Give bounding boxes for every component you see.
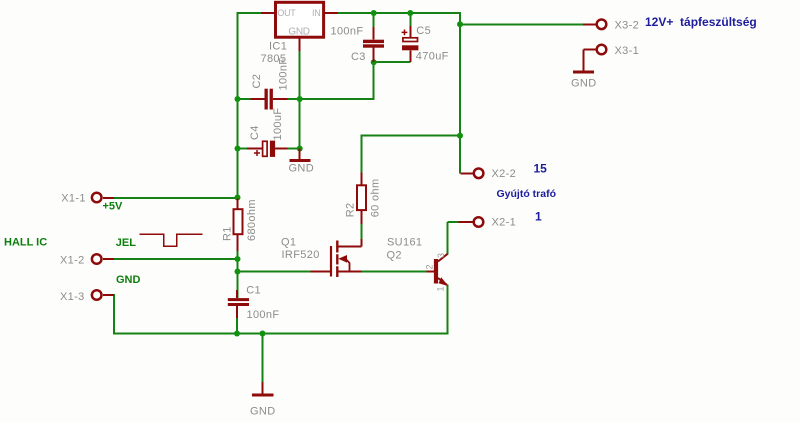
svg-text:OUT: OUT — [277, 8, 296, 18]
svg-text:15: 15 — [534, 162, 548, 176]
connector pin X1-2 — [92, 254, 102, 264]
svg-text:GND: GND — [250, 405, 276, 417]
junction C2 row left — [235, 96, 241, 102]
junction bottom rail C1 — [234, 331, 240, 337]
capacitor C3 pin stubs — [373, 27, 375, 62]
svg-text:100nF: 100nF — [247, 309, 280, 321]
svg-text:R1: R1 — [222, 226, 234, 241]
svg-text:R2: R2 — [345, 203, 357, 218]
svg-text:C5: C5 — [416, 25, 431, 37]
capacitor C4 plates (polarized) — [263, 141, 268, 156]
wire net left +5V rail vertical — [237, 12, 239, 298]
connector pin X3-2 — [597, 20, 607, 30]
svg-text:C4: C4 — [249, 125, 261, 140]
wire X1-2 to rail — [103, 258, 238, 260]
capacitor C1 plates — [228, 298, 249, 301]
ground symbol bottom — [262, 382, 264, 395]
connector pin X3-1 — [597, 45, 607, 55]
IC1 7805 regulator body — [276, 2, 324, 37]
svg-text:Q2: Q2 — [387, 250, 402, 262]
wire X1-1 to rail — [103, 197, 238, 199]
svg-text:X3-1: X3-1 — [615, 45, 640, 57]
svg-text:C3: C3 — [351, 51, 366, 63]
capacitor C3 plates — [363, 40, 384, 43]
ground symbol at X3-1 — [584, 50, 597, 72]
resistor R1 pin stubs — [237, 199, 239, 252]
svg-text:X1-1: X1-1 — [61, 192, 86, 204]
wire Q2 emitter drop — [447, 285, 449, 335]
svg-text:GND: GND — [289, 163, 315, 175]
junction at R2 branch — [457, 133, 463, 139]
wire net +12V top: OUT side horizontal — [238, 12, 276, 14]
connector pin X2-1 — [474, 217, 484, 227]
svg-text:2: 2 — [425, 264, 435, 269]
wire branch to X3-2 — [460, 23, 584, 25]
junction bottom rail GND — [260, 331, 266, 337]
svg-text:IN: IN — [312, 8, 320, 18]
junction at X3-2 branch — [457, 21, 463, 27]
wire branch to R2 top — [362, 135, 461, 186]
capacitor C5 plates (polarized) — [403, 38, 418, 42]
junction C2 row GND drop — [297, 96, 303, 102]
svg-text:60 ohm: 60 ohm — [370, 179, 382, 218]
connector pin X2-2 — [474, 169, 484, 179]
svg-text:470uF: 470uF — [416, 50, 449, 62]
wire Q2 collector riser and X2-1 stub — [448, 222, 459, 255]
wire C3/C5 bottom row — [374, 61, 411, 63]
wire C3 junction down to C2 row — [373, 61, 375, 99]
svg-text:GND: GND — [571, 77, 597, 89]
svg-text:100nF: 100nF — [331, 26, 364, 38]
wire C4 row horizontal — [238, 148, 300, 150]
svg-text:C2: C2 — [251, 74, 263, 89]
svg-text:X1-2: X1-2 — [60, 255, 85, 267]
svg-text:GND: GND — [288, 26, 309, 37]
capacitor C5 plus sign — [402, 30, 408, 36]
wire C3 top stub — [373, 13, 375, 40]
junction X1-1 row — [235, 195, 241, 201]
capacitor C2 pin stubs — [251, 98, 288, 100]
wire C5 top stub — [409, 13, 411, 37]
svg-text:HALL IC: HALL IC — [4, 237, 47, 249]
wire C2 row horizontal — [238, 98, 375, 100]
wire right +12V rail vertical — [459, 12, 461, 173]
transistor Q2 SU161 — [427, 254, 448, 285]
wire C1 bottom stub — [236, 306, 238, 334]
wire gate row from rail to Q1 — [238, 271, 332, 273]
svg-text:100nF: 100nF — [278, 58, 290, 91]
capacitor C4 plus sign — [254, 150, 260, 156]
junction at C3 bottom — [371, 59, 377, 65]
svg-text:12V+ tápfeszültség: 12V+ tápfeszültség — [645, 15, 757, 29]
transistor Q1 source arrow — [338, 255, 347, 263]
transistor Q1 gate pin stub — [311, 271, 332, 273]
wire IC1 GND drop — [299, 38, 301, 149]
svg-text:SU161: SU161 — [387, 237, 422, 249]
svg-text:IRF520: IRF520 — [282, 249, 320, 261]
wire X1-3 down to bottom rail — [103, 294, 114, 334]
resistor R2 pin stubs — [361, 172, 363, 224]
svg-text:Q1: Q1 — [281, 237, 296, 249]
svg-text:C1: C1 — [246, 284, 261, 296]
wire Q1 drain riser to R2 — [361, 210, 363, 246]
junction at C3 top — [371, 10, 377, 16]
svg-text:IC1: IC1 — [269, 41, 287, 53]
svg-text:680ohm: 680ohm — [246, 199, 258, 241]
capacitor C4 pin stubs — [247, 148, 288, 150]
resistor R2 body — [357, 185, 366, 210]
junction at C5 top — [407, 10, 413, 16]
connector pin X1-3 — [92, 290, 102, 300]
junction gate row — [235, 269, 241, 275]
svg-text:GND: GND — [116, 274, 141, 286]
junction X1-2 row — [235, 256, 241, 262]
transistor Q2 emitter arrow — [439, 277, 449, 286]
ground symbol below IC1 — [299, 149, 301, 161]
svg-text:Gyújtó trafó: Gyújtó trafó — [497, 188, 557, 200]
svg-text:X2-1: X2-1 — [492, 217, 517, 229]
connector pin X1-1 — [92, 193, 102, 203]
svg-text:100uF: 100uF — [272, 108, 284, 141]
wire net +12V: IN to right rail — [325, 12, 461, 14]
JEL signal waveform — [140, 234, 203, 246]
svg-text:+5V: +5V — [103, 201, 124, 213]
junction C4 row left — [235, 146, 241, 152]
wire bottom GND rail — [113, 333, 449, 335]
svg-text:JEL: JEL — [116, 237, 136, 249]
capacitor C5 pin stubs — [409, 26, 411, 62]
wire Q1 source to Q2 base — [361, 271, 434, 273]
svg-text:X3-2: X3-2 — [615, 20, 640, 32]
svg-text:3: 3 — [436, 253, 446, 258]
transistor Q1 IRF520 MOSFET — [331, 239, 361, 277]
junction C4 row right — [297, 146, 303, 152]
svg-text:1: 1 — [535, 210, 542, 224]
capacitor C2 plates — [265, 89, 268, 110]
IC1 pin stub GND — [299, 38, 301, 51]
svg-text:1: 1 — [436, 286, 446, 291]
svg-text:X1-3: X1-3 — [60, 291, 85, 303]
IC1 pin stub IN — [325, 12, 338, 14]
capacitor C1 pin stubs — [236, 290, 238, 318]
wire bottom GND symbol stub — [262, 334, 264, 384]
IC1 pin stub OUT — [261, 12, 275, 14]
resistor R1 body — [234, 209, 243, 234]
svg-text:X2-2: X2-2 — [492, 168, 517, 180]
